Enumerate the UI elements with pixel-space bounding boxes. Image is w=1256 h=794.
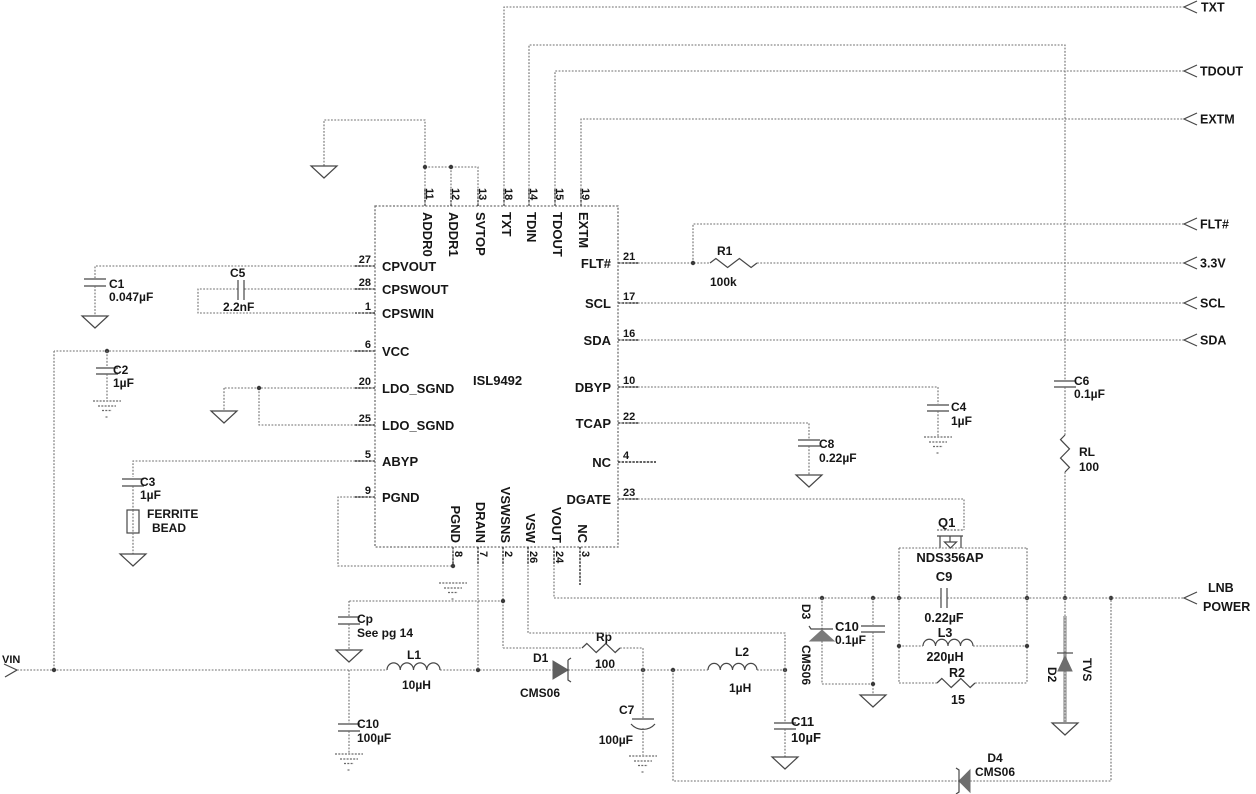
wire ABYP to C3 bbox=[133, 461, 375, 477]
svg-text:VCC: VCC bbox=[382, 344, 410, 359]
pin 16 SDA (right) bbox=[584, 328, 638, 348]
wire VSWSNS / Cp / Rp path bbox=[349, 565, 643, 670]
svg-text:L3: L3 bbox=[938, 626, 953, 640]
inductor L3 bbox=[897, 626, 1029, 664]
pin 26 VSW (bottom) bbox=[523, 513, 539, 565]
wire TCAP to C8 bbox=[618, 423, 809, 439]
svg-text:5: 5 bbox=[365, 449, 371, 461]
svg-text:8: 8 bbox=[452, 551, 464, 557]
capacitor C9 bbox=[924, 569, 964, 625]
svg-text:100: 100 bbox=[595, 657, 615, 671]
ground (C1) bbox=[82, 316, 108, 328]
pin 13 SVTOP (top) bbox=[473, 188, 488, 256]
svg-text:0.1µF: 0.1µF bbox=[1074, 387, 1105, 401]
svg-text:C10: C10 bbox=[835, 619, 859, 634]
svg-text:0.22µF: 0.22µF bbox=[819, 451, 857, 465]
svg-text:R2: R2 bbox=[949, 666, 965, 680]
pin 4 NC (right) bbox=[592, 450, 656, 470]
svg-text:Cp: Cp bbox=[357, 612, 373, 626]
svg-text:D1: D1 bbox=[533, 651, 549, 665]
wire VIN main line bbox=[17, 668, 787, 672]
node VIN bbox=[2, 654, 20, 677]
svg-text:DGATE: DGATE bbox=[566, 492, 611, 507]
svg-text:100µF: 100µF bbox=[599, 733, 633, 747]
filter box (NDS356AP network) bbox=[899, 548, 1027, 683]
svg-text:7: 7 bbox=[477, 551, 489, 557]
ground (C3/ferrite) bbox=[120, 554, 146, 566]
resistor R1 bbox=[710, 244, 757, 289]
svg-text:26: 26 bbox=[527, 551, 539, 563]
svg-text:TDOUT: TDOUT bbox=[550, 212, 565, 257]
svg-text:CMS06: CMS06 bbox=[799, 645, 813, 685]
wire LDO_SGND pins to ground bbox=[224, 386, 375, 425]
wire FLT# pin to R1 and port bbox=[618, 224, 1184, 265]
svg-text:220µH: 220µH bbox=[926, 650, 963, 664]
capacitor C10 (output 0.1µF) bbox=[835, 598, 885, 694]
ground (D2) bbox=[1052, 723, 1078, 735]
svg-text:TXT: TXT bbox=[1201, 1, 1225, 15]
svg-text:VOUT: VOUT bbox=[549, 507, 564, 543]
svg-text:1µF: 1µF bbox=[113, 376, 134, 390]
wire TXT net bbox=[504, 7, 1184, 206]
wire CPVOUT to C1 bbox=[95, 266, 375, 278]
pin 15 TDOUT (top) bbox=[550, 188, 565, 257]
svg-text:28: 28 bbox=[359, 277, 371, 289]
ground (ADDR pins) bbox=[311, 166, 337, 178]
capacitor C2 bbox=[96, 351, 134, 400]
svg-text:ABYP: ABYP bbox=[382, 454, 418, 469]
svg-text:CPVOUT: CPVOUT bbox=[382, 259, 436, 274]
svg-text:TVS: TVS bbox=[1080, 658, 1094, 681]
wire VOUT LNB power line bbox=[554, 565, 1184, 600]
svg-text:C4: C4 bbox=[951, 400, 967, 414]
svg-text:10µF: 10µF bbox=[791, 730, 821, 745]
svg-text:100: 100 bbox=[1079, 460, 1099, 474]
pin 8 PGND (bottom) bbox=[448, 505, 464, 565]
svg-text:0.047µF: 0.047µF bbox=[109, 290, 153, 304]
wire SDA net bbox=[618, 339, 1184, 341]
inductor L1 bbox=[387, 648, 440, 692]
svg-text:SCL: SCL bbox=[1200, 297, 1225, 311]
pin 14 TDIN (top) bbox=[524, 188, 539, 242]
svg-text:POWER: POWER bbox=[1203, 600, 1250, 614]
svg-text:CMS06: CMS06 bbox=[520, 686, 560, 700]
ground (C8) bbox=[796, 475, 822, 487]
svg-text:D3: D3 bbox=[799, 604, 813, 620]
wire DGATE to Q1 gate bbox=[618, 499, 964, 530]
svg-text:ADDR0: ADDR0 bbox=[420, 212, 435, 257]
svg-text:NDS356AP: NDS356AP bbox=[916, 550, 984, 565]
svg-text:27: 27 bbox=[359, 254, 371, 266]
svg-text:2: 2 bbox=[502, 551, 514, 557]
svg-text:SDA: SDA bbox=[1200, 334, 1226, 348]
transistor Q1 NDS356AP bbox=[937, 515, 964, 548]
pin 17 SCL (right) bbox=[585, 291, 638, 311]
wire C6 to RL bbox=[1064, 387, 1066, 435]
ground (C4) bbox=[924, 437, 952, 453]
pin 7 DRAIN (bottom) bbox=[473, 502, 489, 565]
svg-text:NC: NC bbox=[575, 524, 590, 543]
svg-text:20: 20 bbox=[359, 376, 371, 388]
ground (D3/C10) bbox=[860, 695, 886, 707]
capacitor C11 bbox=[774, 670, 821, 757]
svg-text:CMS06: CMS06 bbox=[975, 765, 1015, 779]
pin 20 LDO_SGND (left) bbox=[355, 376, 454, 396]
svg-text:NC: NC bbox=[592, 455, 611, 470]
node 3.3V bbox=[1184, 257, 1226, 271]
svg-text:CPSWOUT: CPSWOUT bbox=[382, 282, 449, 297]
svg-text:LDO_SGND: LDO_SGND bbox=[382, 418, 454, 433]
inductor L2 bbox=[708, 645, 757, 695]
svg-text:FERRITE: FERRITE bbox=[147, 507, 198, 521]
capacitor C8 bbox=[798, 437, 857, 475]
svg-text:100µF: 100µF bbox=[357, 731, 391, 745]
svg-text:22: 22 bbox=[623, 411, 635, 423]
svg-text:1: 1 bbox=[365, 301, 371, 313]
svg-text:2.2nF: 2.2nF bbox=[223, 300, 254, 314]
wire DRAIN pin7 down bbox=[477, 565, 479, 670]
svg-text:10: 10 bbox=[623, 375, 635, 387]
wire DBYP to C4 bbox=[618, 387, 938, 404]
ground (PGND) bbox=[439, 583, 467, 599]
resistor Rp bbox=[582, 630, 620, 671]
pin 22 TCAP (right) bbox=[576, 411, 638, 431]
capacitor C4 bbox=[927, 400, 972, 436]
svg-text:VSW: VSW bbox=[523, 513, 538, 543]
svg-text:SVTOP: SVTOP bbox=[473, 212, 488, 256]
capacitor C1 bbox=[84, 277, 153, 304]
svg-text:3: 3 bbox=[579, 551, 591, 557]
diode D3 bbox=[799, 598, 873, 685]
svg-text:D2: D2 bbox=[1045, 667, 1059, 683]
pin 2 VSWSNS (bottom) bbox=[498, 487, 514, 565]
wire TDIN to C6 column bbox=[529, 45, 1065, 381]
svg-text:C1: C1 bbox=[109, 277, 125, 291]
svg-text:SCL: SCL bbox=[585, 296, 611, 311]
pin 24 VOUT (bottom) bbox=[549, 507, 565, 565]
svg-text:C6: C6 bbox=[1074, 374, 1090, 388]
svg-text:C2: C2 bbox=[113, 363, 129, 377]
svg-text:DBYP: DBYP bbox=[575, 380, 611, 395]
ferrite bead bbox=[127, 507, 198, 554]
svg-text:R1: R1 bbox=[717, 244, 733, 258]
svg-text:PGND: PGND bbox=[448, 505, 463, 543]
svg-text:C10: C10 bbox=[357, 717, 379, 731]
svg-text:17: 17 bbox=[623, 291, 635, 303]
wire PGND pin9 to pin8 bbox=[338, 497, 455, 568]
pin 28 CPSWOUT (left) bbox=[355, 277, 449, 297]
svg-text:TDIN: TDIN bbox=[524, 212, 539, 242]
svg-text:Rp: Rp bbox=[596, 630, 612, 644]
svg-text:CPSWIN: CPSWIN bbox=[382, 306, 434, 321]
svg-text:PGND: PGND bbox=[382, 490, 420, 505]
wire RL to LNB line bbox=[1063, 472, 1067, 600]
svg-text:C8: C8 bbox=[819, 437, 835, 451]
pin 23 DGATE (right) bbox=[566, 487, 638, 507]
diode D4 bbox=[956, 751, 1015, 794]
svg-text:See pg 14: See pg 14 bbox=[357, 626, 413, 640]
ground (C10 input) bbox=[335, 754, 363, 770]
svg-text:24: 24 bbox=[553, 551, 565, 564]
wire SCL net bbox=[618, 302, 1184, 304]
svg-text:LDO_SGND: LDO_SGND bbox=[382, 381, 454, 396]
ground (C11) bbox=[772, 757, 798, 769]
IC U1 ISL9492 bbox=[375, 206, 618, 547]
svg-text:100k: 100k bbox=[710, 275, 737, 289]
svg-text:15: 15 bbox=[951, 693, 965, 707]
svg-text:1µF: 1µF bbox=[951, 414, 972, 428]
svg-text:4: 4 bbox=[623, 450, 630, 462]
svg-text:L1: L1 bbox=[407, 648, 421, 662]
wire VCC rail bbox=[54, 349, 375, 670]
svg-text:1µH: 1µH bbox=[729, 681, 751, 695]
node SCL bbox=[1184, 297, 1225, 311]
svg-text:0.22µF: 0.22µF bbox=[924, 611, 964, 625]
svg-text:Q1: Q1 bbox=[938, 515, 955, 530]
pin 27 CPVOUT (left) bbox=[355, 254, 436, 274]
wire C1 to ground bbox=[94, 286, 96, 316]
svg-text:25: 25 bbox=[359, 413, 371, 425]
svg-text:VIN: VIN bbox=[2, 654, 20, 666]
capacitor C10 (input 100µF) bbox=[338, 670, 391, 753]
svg-text:TXT: TXT bbox=[499, 212, 514, 237]
pin 10 DBYP (right) bbox=[575, 375, 638, 395]
svg-text:C11: C11 bbox=[791, 714, 814, 729]
svg-text:EXTM: EXTM bbox=[576, 212, 591, 248]
svg-text:L2: L2 bbox=[735, 645, 749, 659]
svg-text:FLT#: FLT# bbox=[581, 256, 612, 271]
svg-text:BEAD: BEAD bbox=[152, 521, 186, 535]
capacitor Cp bbox=[338, 612, 413, 650]
svg-text:3.3V: 3.3V bbox=[1200, 257, 1226, 271]
capacitor C6 bbox=[1054, 374, 1105, 401]
svg-text:1µF: 1µF bbox=[140, 488, 161, 502]
wire TDOUT net bbox=[555, 71, 1184, 206]
svg-text:FLT#: FLT# bbox=[1200, 218, 1229, 232]
svg-text:RL: RL bbox=[1079, 445, 1095, 459]
resistor R2 bbox=[937, 666, 975, 707]
svg-text:9: 9 bbox=[365, 485, 371, 497]
svg-text:C3: C3 bbox=[140, 475, 156, 489]
diode D1 bbox=[520, 651, 571, 700]
svg-text:LNB: LNB bbox=[1208, 581, 1234, 595]
ground (LDO_SGND) bbox=[211, 411, 237, 423]
svg-text:TDOUT: TDOUT bbox=[1200, 65, 1243, 79]
pin 12 ADDR1 (top) bbox=[446, 188, 461, 257]
wire D4 branch bbox=[673, 596, 1113, 781]
pin 25 LDO_SGND (left) bbox=[355, 413, 454, 433]
svg-text:EXTM: EXTM bbox=[1200, 113, 1235, 127]
pin 1 CPSWIN (left) bbox=[355, 301, 434, 321]
node SDA bbox=[1184, 334, 1226, 348]
svg-text:SDA: SDA bbox=[584, 333, 612, 348]
capacitor C3 bbox=[122, 475, 161, 510]
svg-text:23: 23 bbox=[623, 487, 635, 499]
node EXTM bbox=[1184, 113, 1235, 127]
svg-text:ISL9492: ISL9492 bbox=[473, 373, 522, 388]
svg-text:0.1µF: 0.1µF bbox=[835, 633, 866, 647]
node TDOUT bbox=[1184, 65, 1243, 79]
svg-text:21: 21 bbox=[623, 251, 635, 263]
ground (Cp) bbox=[336, 650, 362, 662]
svg-text:C7: C7 bbox=[619, 703, 635, 717]
svg-text:ADDR1: ADDR1 bbox=[446, 212, 461, 257]
svg-text:TCAP: TCAP bbox=[576, 416, 612, 431]
pin 6 VCC (left) bbox=[355, 339, 410, 359]
svg-text:16: 16 bbox=[623, 328, 635, 340]
node LNB POWER bbox=[1184, 581, 1250, 614]
pin 18 TXT (top) bbox=[499, 188, 514, 237]
ground (C2) bbox=[93, 401, 121, 417]
pin 5 ABYP (left) bbox=[355, 449, 418, 469]
svg-text:6: 6 bbox=[365, 339, 371, 351]
wire EXTM net bbox=[581, 119, 1184, 206]
node FLT# bbox=[1184, 218, 1229, 232]
pin 21 FLT# (right) bbox=[581, 251, 638, 271]
svg-text:C9: C9 bbox=[936, 569, 953, 584]
ground (C7) bbox=[629, 756, 657, 772]
wire VSW pin26 to L2 output bbox=[528, 565, 785, 670]
pin 19 EXTM (top) bbox=[576, 188, 591, 248]
wire ADDR0/ADDR1/SVTOP to ground bbox=[324, 120, 478, 206]
capacitor C5 bbox=[223, 266, 254, 314]
svg-text:D4: D4 bbox=[987, 751, 1003, 765]
pin 11 ADDR0 (top) bbox=[420, 188, 435, 257]
pin 9 PGND (left) bbox=[355, 485, 420, 505]
node TXT bbox=[1184, 1, 1225, 15]
pin 3 NC (bottom) bbox=[575, 524, 591, 585]
svg-text:10µH: 10µH bbox=[402, 678, 431, 692]
svg-text:DRAIN: DRAIN bbox=[473, 502, 488, 543]
diode D2 TVS bbox=[1045, 598, 1094, 723]
svg-text:C5: C5 bbox=[230, 266, 246, 280]
resistor RL bbox=[1061, 435, 1100, 474]
wire CPSWOUT loop bbox=[198, 289, 375, 313]
capacitor C7 bbox=[599, 670, 655, 755]
svg-text:VSWSNS: VSWSNS bbox=[498, 487, 513, 544]
